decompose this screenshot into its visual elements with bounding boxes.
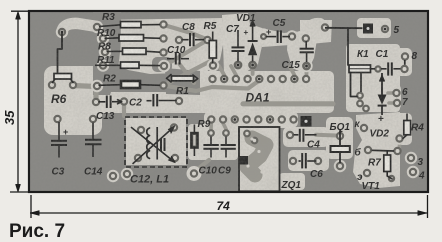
- trace R2 to DA1: [164, 86, 212, 92]
- capacitor C10 top: [167, 58, 174, 60]
- white trace loop top-left: [62, 23, 97, 32]
- pad R4 bottom: [393, 132, 405, 144]
- routed region BQ1: [326, 117, 353, 159]
- routed region ZQ1 interior: [240, 128, 279, 190]
- pad C13 left: [93, 99, 99, 105]
- crystal BQ1: [339, 131, 341, 147]
- trace R4 pad: [398, 141, 402, 147]
- capacitor C3: [58, 122, 60, 140]
- resistor R4 vertical: [406, 114, 408, 121]
- resistor R1 with arrows: [167, 75, 172, 83]
- pad C4 left: [287, 132, 293, 138]
- copper patch left of DA1: [152, 57, 172, 72]
- contour L1 dashed box: [125, 117, 187, 167]
- routed notch pads 8: [394, 48, 412, 76]
- capacitor C8: [182, 39, 189, 41]
- trace top row stub a: [219, 66, 224, 75]
- pad trace-loop A: [56, 26, 68, 38]
- wire K1 bottom: [351, 73, 358, 97]
- pads BQ1: [334, 133, 346, 172]
- routed notch top-right trace loop: [297, 20, 332, 45]
- pad K1 coil: [375, 66, 380, 71]
- pad C15 bottom: [300, 60, 312, 72]
- diode VD2: [381, 73, 383, 95]
- routed region K1 relay island: [346, 44, 400, 112]
- trace C4 to BQ1: [316, 133, 336, 138]
- routed region C15: [287, 31, 318, 74]
- routed region DA1 bottom row: [204, 111, 298, 128]
- wire from pad A stepped: [58, 33, 63, 73]
- copper patch top C5: [256, 12, 300, 33]
- routed region R9/C10/C9 chimneys: [188, 124, 238, 160]
- routed region C4 strip: [283, 127, 329, 147]
- scan blotch overlay on board: [30, 12, 427, 191]
- capacitor C2: [147, 100, 152, 102]
- pads ZQ1 interior: [244, 131, 263, 174]
- arrow through C12 L1 a: [132, 128, 173, 161]
- pads 6 7: [393, 90, 400, 106]
- pads 3 4: [405, 152, 419, 178]
- relay K1 contact: [349, 65, 371, 73]
- capacitor C4: [294, 134, 299, 136]
- capacitor C13: [99, 101, 106, 103]
- copper wedge label column: [93, 12, 121, 95]
- trace below DA1 top row: [212, 81, 259, 89]
- trace VD1 pad down: [251, 68, 255, 74]
- trace from R3 pad to C8: [164, 25, 206, 39]
- trace bottom row stub a: [209, 123, 213, 129]
- pad C6 right: [312, 155, 324, 167]
- resistor R9 vertical: [193, 125, 195, 134]
- svg-text:74: 74: [217, 199, 231, 213]
- capacitor C15: [305, 41, 307, 48]
- scan noise filter def: [0, 0, 1, 1]
- routed notch square pad 5: [357, 18, 391, 38]
- pad VD1 bottom: [250, 62, 256, 68]
- pad bottom center: [187, 166, 202, 181]
- trace diagonal to DA1 a: [164, 42, 205, 67]
- black square pad top-right: [363, 24, 373, 34]
- resistor R7 vertical: [384, 155, 391, 172]
- pad C5 right: [286, 30, 298, 42]
- pads C10 C9 tops: [208, 130, 229, 136]
- copper patch around R1: [165, 68, 200, 95]
- resistor right pads column: [158, 21, 170, 88]
- trace bottom row stub b: [223, 123, 226, 129]
- diode VD1: [250, 21, 255, 27]
- board copper area: [29, 11, 428, 192]
- resistor R3: [99, 25, 121, 27]
- wire pad8 to C1: [404, 60, 406, 65]
- routed region C6 strip: [288, 150, 329, 171]
- arrow through C12 L1 b: [133, 129, 172, 164]
- svg-text:Рис. 7: Рис. 7: [9, 221, 65, 242]
- IC DA1 top pad row: [209, 76, 309, 82]
- white trace loop near C15: [306, 23, 325, 38]
- pad base: [365, 147, 371, 153]
- pad collector: [358, 122, 370, 134]
- trace DA1 horizontal bus: [243, 101, 333, 106]
- dimension extension tick top: [11, 10, 29, 12]
- capacitor C12 trimmer: [160, 138, 162, 151]
- dimension extension tick bottom-left: [10, 191, 30, 193]
- pads C3 C14: [54, 116, 96, 122]
- resistor R5 vertical: [212, 32, 214, 41]
- routed region transistor island: [353, 112, 400, 188]
- wire relay to pads: [360, 73, 362, 93]
- quartz ZQ1 box: [239, 127, 280, 192]
- trace diagonal to DA1 b: [164, 60, 213, 86]
- pad C2 right: [173, 95, 185, 107]
- capacitor C10 bottom: [210, 137, 212, 145]
- IC DA1 bottom pad row: [208, 116, 296, 122]
- pad C7 bottom: [235, 62, 241, 68]
- trace R6 to R2 pads: [73, 86, 96, 102]
- pad C1 right: [401, 66, 407, 72]
- resistor R2: [99, 84, 122, 87]
- capacitor C6: [299, 160, 301, 162]
- pads K1 bottom: [357, 93, 369, 112]
- routed region C5: [260, 28, 290, 47]
- routed region R2/C13/C2 band: [88, 92, 180, 113]
- black square pad center: [301, 116, 312, 127]
- pad trace-loop B: [91, 21, 103, 33]
- pads around R6: [49, 82, 76, 88]
- pad trace-loop right: [319, 21, 331, 33]
- resistor R8: [107, 50, 123, 52]
- dimension line horizontal 74: [30, 212, 427, 214]
- pad C8 left: [176, 37, 182, 43]
- svg-text:35: 35: [2, 110, 17, 125]
- pads bottom row left: [107, 168, 133, 182]
- pad base right: [394, 148, 400, 154]
- capacitor C7: [237, 30, 239, 47]
- trace bottom pad to C10: [194, 160, 209, 172]
- dimension extension line bottom-right: [427, 195, 429, 218]
- wire K1 left vertical: [347, 28, 349, 65]
- trace ZQ1 blob: [247, 138, 266, 175]
- pad R7 bottom: [385, 172, 397, 184]
- capacitor C9 bottom: [225, 137, 227, 145]
- trace C2 junction down: [122, 104, 126, 116]
- pad C15 top: [303, 35, 309, 41]
- routed region L1 box interior: [126, 118, 186, 165]
- dimension extension line bottom-left: [30, 195, 32, 218]
- trace C10 down: [180, 64, 195, 83]
- routed region VD1/C7: [222, 13, 262, 73]
- pad C5 left: [261, 34, 266, 39]
- pad emitter: [361, 167, 373, 179]
- routed notch pads 6-7: [388, 84, 401, 110]
- wire top-right horizontal: [325, 27, 363, 29]
- routed region DA1 field: [166, 71, 334, 113]
- routed region ZQ1 label patch: [279, 173, 305, 190]
- resistor R10: [105, 37, 120, 40]
- pad 5: [382, 26, 388, 32]
- trace pads6-7 stubs: [388, 93, 397, 103]
- dimension line vertical 35: [17, 13, 19, 191]
- trace top row stub c: [290, 67, 294, 75]
- pad C8 right: [204, 37, 210, 43]
- resistor R11: [95, 64, 121, 66]
- pad 8: [402, 53, 408, 59]
- trace top row stub b: [231, 66, 236, 75]
- capacitor C1: [371, 68, 376, 70]
- routed notch R4: [395, 113, 412, 145]
- routed region R6 channel: [44, 66, 102, 135]
- pad C6 left: [290, 158, 296, 164]
- capacitor C14: [92, 123, 94, 140]
- scan blotch filter def: [0, 0, 1, 1]
- trace C15 bottom: [305, 69, 309, 74]
- inductor L1 coil: [147, 128, 150, 158]
- pad C13-C2 junction: [121, 98, 127, 104]
- black square pad ZQ1 corner: [240, 156, 249, 165]
- routed region center-left (resistor field): [101, 18, 224, 74]
- resistor left pads column: [91, 32, 111, 92]
- wire base to R7: [372, 149, 395, 152]
- pad R5 bottom: [207, 59, 219, 71]
- pads in L1 box: [135, 124, 178, 161]
- trace K1 island a: [358, 98, 362, 103]
- resistor R6: [54, 74, 72, 80]
- scan noise overlay on board: [30, 12, 427, 191]
